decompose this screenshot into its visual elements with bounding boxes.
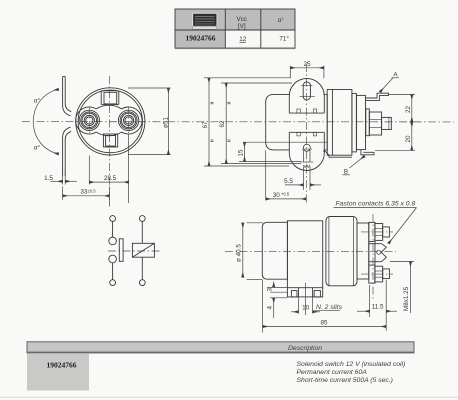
top stud tip: [383, 227, 390, 237]
dimension 3: [266, 282, 287, 293]
bottom rect outer: [103, 134, 117, 147]
main body: [287, 221, 322, 297]
svg-text:12: 12: [239, 36, 247, 43]
top bump outer: [101, 91, 119, 105]
stud axis vertical centerline: [372, 214, 374, 299]
stud washer: [366, 109, 370, 136]
table header row background: [175, 9, 295, 30]
svg-text:α°: α°: [34, 97, 41, 105]
dimension 22: [389, 95, 415, 122]
table grid: [175, 9, 295, 48]
schematic wire bottom: [112, 263, 114, 280]
svg-text:22: 22: [405, 105, 412, 113]
svg-text:19024766: 19024766: [186, 34, 216, 43]
bracket fold edge line: [243, 141, 327, 143]
dimension 1.5: [44, 170, 77, 185]
top stud hex nut: [375, 224, 383, 241]
dimension 4: [266, 298, 287, 318]
svg-text:67: 67: [202, 121, 209, 129]
front view vertical centerline: [108, 76, 110, 203]
label B with leader: [343, 156, 365, 176]
right stud rings: [118, 110, 138, 130]
dimension 30 +0.5: [266, 151, 307, 201]
dia 40.5 dimension: [236, 223, 263, 280]
svg-text:62: 62: [219, 120, 226, 128]
svg-text:71°: 71°: [279, 35, 289, 43]
svg-text:1.5: 1.5: [44, 175, 53, 182]
bracket wrap under cap: [323, 151, 352, 157]
top mounting tab: [289, 79, 324, 114]
svg-text:10: 10: [302, 305, 310, 312]
stud tip: [382, 117, 392, 129]
svg-text:19024766: 19024766: [47, 360, 77, 369]
svg-text:Faston contacts 6.35 x 0.8: Faston contacts 6.35 x 0.8: [336, 200, 416, 207]
schematic coil terminal bottom: [139, 280, 145, 286]
terminal flange: [356, 95, 365, 149]
svg-text:33±0.5: 33±0.5: [80, 188, 96, 195]
rear cap: [262, 222, 287, 279]
main horizontal centerline: [22, 121, 454, 123]
bottom mounting tab: [289, 132, 324, 170]
svg-text:α°: α°: [34, 144, 41, 152]
schematic coil wire top: [141, 221, 143, 243]
svg-text:A: A: [393, 72, 398, 79]
dimension 67: [202, 78, 290, 166]
dimension 25: [290, 61, 324, 78]
front housing cap: [327, 90, 352, 156]
bottom faint page line: [0, 396, 458, 398]
stud base plate: [369, 222, 375, 283]
dimension 33 +-0.5: [63, 187, 110, 207]
svg-text:α°: α°: [278, 16, 285, 24]
table data cells background: [225, 30, 295, 48]
table bottom shadow: [175, 48, 296, 49]
schematic contact terminal bottom: [110, 280, 116, 286]
bottom stud centerline: [361, 273, 393, 275]
dimension 11.5: [357, 285, 397, 317]
schematic coil terminal top: [139, 216, 145, 222]
bottom view centerline: [225, 251, 396, 253]
top stud centerline: [361, 231, 393, 233]
svg-text:Short-time current 500A (5 sec: Short-time current 500A (5 sec.): [297, 377, 393, 384]
tab B plate: [361, 150, 374, 155]
svg-text:3: 3: [266, 288, 273, 292]
svg-text:85: 85: [320, 320, 328, 327]
front view outer circle: [76, 88, 145, 155]
dimension 85: [263, 280, 387, 333]
svg-text:N. 2 slits: N. 2 slits: [316, 304, 343, 311]
bottom stud hex nut: [375, 266, 383, 282]
tab A plate: [366, 93, 389, 100]
svg-text:25: 25: [303, 61, 311, 68]
table part number cell background: [175, 30, 225, 48]
description text lines: [297, 361, 406, 384]
left stud rings: [79, 110, 99, 130]
contact plate section: [357, 223, 369, 279]
svg-text:[V]: [V]: [238, 23, 246, 30]
bottom plate with slits: [287, 288, 322, 297]
alpha dimension arc bottom: [33, 122, 58, 154]
svg-text:Vcc: Vcc: [237, 16, 248, 23]
top bump inner: [104, 92, 117, 104]
alpha dimension arc top: [33, 89, 58, 121]
schematic wire top: [112, 221, 114, 237]
stud nut: [369, 112, 381, 135]
dimension 5.5: [284, 167, 321, 191]
dimension M8x1.25: [390, 262, 414, 314]
symmetry marks: [211, 102, 231, 141]
schematic coil box: [132, 243, 154, 257]
svg-text:15: 15: [238, 149, 245, 157]
schematic fixed contact upper: [109, 237, 117, 245]
dimension 10 with slits note: [291, 283, 343, 315]
svg-text:ø 40.5: ø 40.5: [236, 244, 243, 262]
svg-text:28.5: 28.5: [104, 175, 117, 182]
left stud vertical centerline: [88, 107, 90, 135]
dimension 62: [219, 83, 301, 164]
dia51 dimension: [128, 88, 171, 155]
schematic centerline: [108, 250, 160, 252]
schematic fixed contact lower: [109, 255, 117, 263]
svg-text:Solenoid switch 12 V (insulate: Solenoid switch 12 V (insulated coil): [297, 361, 406, 368]
svg-text:M8x1.25: M8x1.25: [403, 286, 410, 311]
right stud vertical centerline: [128, 107, 130, 135]
part number box: [27, 354, 89, 391]
dimension 28.5: [89, 135, 128, 204]
faston tab: [375, 244, 386, 262]
ribbed front housing: [326, 217, 357, 286]
faston label: [334, 200, 417, 243]
bottom rect inner: [106, 136, 116, 147]
bottom stud tip: [383, 269, 390, 279]
bracket strip: [63, 77, 72, 177]
dimension 15: [238, 142, 302, 161]
cover blob outline: [76, 105, 142, 136]
schematic contact terminal top: [110, 216, 116, 222]
side view vertical centerline: [305, 64, 307, 204]
svg-text:Permanent current 60A: Permanent current 60A: [297, 369, 368, 376]
svg-text:ø51: ø51: [162, 117, 169, 128]
schematic movable contact bar: [119, 239, 123, 261]
label A with leader: [380, 72, 399, 93]
front view inner circle: [78, 90, 142, 153]
svg-text:4: 4: [266, 306, 273, 310]
description bar: [27, 342, 415, 354]
front housing inner step: [331, 90, 333, 156]
schematic coil diagonal: [132, 243, 154, 257]
front plate: [352, 93, 357, 151]
svg-text:20: 20: [405, 135, 412, 143]
schematic coil wire bottom: [141, 257, 143, 280]
svg-text:30 +0.5: 30 +0.5: [273, 192, 290, 200]
dimension 20: [375, 122, 415, 150]
svg-text:5.5: 5.5: [284, 178, 293, 185]
svg-text:Description: Description: [288, 345, 322, 352]
svg-text:11.5: 11.5: [372, 304, 384, 311]
logo box: [193, 13, 217, 29]
side view body: [266, 94, 328, 149]
